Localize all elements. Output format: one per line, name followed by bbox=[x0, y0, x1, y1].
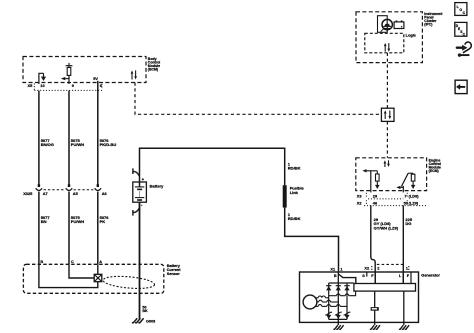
label 5076 PK bbox=[100, 215, 110, 224]
svg-text:RD/BK: RD/BK bbox=[288, 216, 301, 221]
svg-text:C: C bbox=[71, 260, 74, 264]
wire bridge to ground bbox=[337, 319, 339, 325]
resistor R-BCM bbox=[67, 68, 71, 76]
wire 5075 PU/WH (BCM pin9 to X325) bbox=[68, 91, 70, 185]
svg-text:BN: BN bbox=[41, 219, 47, 224]
svg-text:X2: X2 bbox=[357, 201, 363, 206]
signal arrow left ECM pin29 bbox=[362, 169, 370, 172]
label Fusible Link bbox=[290, 186, 305, 195]
diode bridge bottom bus bbox=[329, 318, 347, 320]
connector X325 dashed links bbox=[44, 189, 94, 191]
icon jump arrow bbox=[457, 42, 472, 57]
wire sensor pin C internal bbox=[69, 264, 94, 278]
svg-text:(LZ9): (LZ9) bbox=[409, 201, 419, 206]
wire F terminal to regulator bbox=[374, 272, 376, 284]
label 29 GY (LD8) GY/WH (LZ9) bbox=[374, 217, 399, 231]
label 50 BK bbox=[142, 306, 148, 314]
wire battery positive to fusible link (top run) bbox=[140, 148, 285, 185]
terminal stub S bbox=[366, 272, 368, 277]
diode bridge leg 2 (B wire center leg) bbox=[337, 272, 339, 319]
signal arrow left ECM pin7 bbox=[396, 186, 403, 189]
svg-text:GY/WH (LZ9): GY/WH (LZ9) bbox=[374, 226, 399, 231]
diode bridge leg 3 bbox=[346, 283, 348, 319]
labels X2 2 1 generator pins bbox=[364, 266, 408, 271]
wire L terminal to regulator bbox=[402, 272, 404, 284]
svg-text:Logic: Logic bbox=[406, 32, 417, 37]
wire 5076 PK/D-BU (BCM pin6 to X325) bbox=[97, 81, 99, 185]
sensor loop dashed ellipse bbox=[103, 275, 155, 291]
avalanche diode D6 bbox=[344, 312, 351, 319]
pin letters B C A bbox=[40, 260, 102, 264]
svg-text:Generator: Generator bbox=[421, 272, 440, 277]
svg-text:B: B bbox=[334, 274, 337, 278]
battery clamp top bbox=[133, 168, 139, 176]
svg-text:A5: A5 bbox=[73, 191, 79, 196]
svg-text:BN/OG: BN/OG bbox=[41, 142, 54, 147]
generator G1 box bbox=[300, 272, 419, 322]
stator phase winding 3 bbox=[315, 305, 347, 307]
battery icon in IPC bbox=[394, 20, 404, 28]
wire F right terminal stub to regulator bbox=[410, 272, 412, 284]
svg-text:PU/WH: PU/WH bbox=[71, 219, 84, 224]
field coil rotor bbox=[371, 307, 379, 311]
serial data wire splice to ECM (dashed) bbox=[386, 121, 388, 157]
ground arrow ECM-2 bbox=[411, 181, 416, 189]
diode D2 bbox=[336, 286, 341, 291]
connector X325 pin A7 symbol bbox=[36, 184, 42, 264]
icon DESC hyperlink box bbox=[455, 22, 467, 36]
wire battery negative cable through sensor to ground bbox=[139, 202, 141, 319]
battery clamp bottom bbox=[133, 208, 139, 216]
connector row X2 dotted bbox=[364, 200, 427, 205]
label 5075 PU/WH bbox=[71, 138, 84, 147]
ground symbol generator bridge bbox=[333, 325, 343, 329]
svg-text:A6: A6 bbox=[102, 191, 108, 196]
svg-text:5V: 5V bbox=[93, 76, 98, 81]
voltage regulator box bbox=[354, 284, 416, 292]
serial data wire IPC to splice (dashed) bbox=[386, 53, 388, 108]
terminal letters B S F L F bbox=[334, 274, 410, 278]
signal arrow left BCM bbox=[61, 77, 69, 80]
pin 2 dotted marker bbox=[371, 266, 373, 271]
svg-text:X1: X1 bbox=[330, 266, 336, 271]
resistor R-ECM-2 bbox=[411, 173, 415, 181]
connector X325 pin A5 symbol bbox=[66, 184, 72, 264]
serial data arrows in ECM bbox=[384, 160, 390, 167]
label Instrument Panel Cluster (IPC) bbox=[424, 12, 443, 27]
wire regulator to field coil and ground bbox=[374, 291, 376, 325]
gauge glyph inside lamp bbox=[383, 24, 391, 29]
svg-text:B: B bbox=[40, 260, 43, 264]
svg-text:A7: A7 bbox=[43, 191, 48, 196]
wire 225 DG ECM to generator L bbox=[402, 205, 404, 283]
stator phase winding 1 bbox=[315, 296, 329, 298]
battery current sensor B1S dashed box bbox=[23, 264, 163, 293]
resistor R-ECM-1 bbox=[376, 171, 380, 181]
svg-text:X5: X5 bbox=[28, 83, 34, 88]
label 1 RD/BK upper bbox=[288, 161, 301, 170]
svg-text:PU/WH: PU/WH bbox=[71, 142, 84, 147]
module K20 Engine Control Module (ECM) dashed box bbox=[356, 158, 427, 191]
icon LOC hyperlink box bbox=[455, 3, 467, 16]
label Battery Current Sensor bbox=[167, 264, 181, 276]
svg-text:RD/BK: RD/BK bbox=[288, 166, 301, 171]
B+ supply symbol in BCM bbox=[66, 63, 73, 68]
icon back arrow box bbox=[455, 80, 467, 93]
wire BCM pin 10 internal bbox=[39, 73, 44, 84]
svg-text:Sensor: Sensor bbox=[167, 272, 180, 276]
transistor switch Q-ECM bbox=[401, 173, 413, 186]
wire ECM pin 29 internal bbox=[371, 171, 378, 193]
fusible link F1 bbox=[283, 185, 287, 207]
connector row X3 dotted bbox=[366, 193, 407, 199]
diode D1 bbox=[326, 286, 331, 291]
svg-text:DG: DG bbox=[405, 221, 411, 226]
label 5077 BN/OG bbox=[41, 138, 54, 147]
svg-text:(LD8): (LD8) bbox=[409, 193, 420, 198]
connector X325 pin A6 symbol bbox=[95, 184, 101, 264]
stator phase winding 2 bbox=[317, 300, 338, 302]
pin labels X5 10 9 6 bbox=[28, 83, 103, 88]
diode bridge leg 1 bbox=[328, 283, 330, 319]
serial data splice box bbox=[381, 108, 394, 121]
wire 5077 BN/OG (BCM pin10 to X325) bbox=[38, 91, 40, 185]
wire sensor pin A internal bbox=[97, 264, 99, 274]
svg-text:X325: X325 bbox=[23, 191, 33, 196]
ground G003 symbol bbox=[132, 318, 144, 322]
svg-text:X2: X2 bbox=[364, 266, 370, 271]
label 5076 PK/D-BU bbox=[100, 138, 117, 147]
wire BCM pin 9 internal bbox=[68, 75, 70, 84]
battery cell plates bbox=[135, 187, 144, 200]
diode D3 bbox=[344, 286, 349, 291]
pin labels X3 29 7 (LD8) bbox=[357, 193, 419, 198]
module P16 Instrument Panel Cluster (IPC) dashed box bbox=[356, 12, 422, 63]
pin labels X2 46 53 (LZ9) bbox=[357, 201, 419, 206]
label 5077 BN bbox=[41, 215, 51, 224]
wire 29 GY ECM to generator F bbox=[371, 205, 375, 283]
battery G-battery box bbox=[133, 177, 147, 203]
diode bridge top bus bbox=[329, 282, 354, 284]
svg-text:G003: G003 bbox=[146, 320, 155, 324]
hall element box with X bbox=[94, 274, 102, 281]
svg-text:PK: PK bbox=[100, 219, 106, 224]
charge indicator lamp circle bbox=[382, 19, 392, 29]
label 225 DG bbox=[405, 217, 412, 226]
phase sense wire to regulator bbox=[329, 291, 356, 296]
svg-text:(ECM): (ECM) bbox=[429, 169, 439, 173]
wire sensor pin B internal bbox=[39, 264, 98, 287]
svg-text:7: 7 bbox=[404, 193, 406, 198]
avalanche diode D5 bbox=[335, 312, 342, 319]
wire ECM pin 7 internal bbox=[402, 186, 404, 193]
avalanche diode D4 bbox=[325, 312, 332, 319]
ground symbol generator regulator bbox=[399, 325, 409, 329]
serial data arrows in BCM bbox=[131, 70, 137, 79]
serial data arrows in logic box bbox=[384, 43, 390, 52]
label 1 RD/BK lower bbox=[288, 212, 301, 221]
svg-text:A: A bbox=[99, 260, 102, 264]
charge indicator telltale rectangle bbox=[378, 16, 388, 33]
svg-text:10: 10 bbox=[40, 83, 44, 88]
svg-text:Battery: Battery bbox=[150, 183, 165, 188]
svg-text:(IPC): (IPC) bbox=[424, 22, 432, 26]
svg-text:X3: X3 bbox=[357, 193, 363, 198]
label Engine Control Module (ECM) bbox=[429, 158, 441, 173]
pin 1 dotted marker bbox=[408, 266, 410, 271]
module K9 Body Control Module (BCM) dashed box bbox=[23, 57, 146, 83]
label Body Control Module (BCM) bbox=[148, 57, 160, 72]
serial data wire BCM to splice (dashed) bbox=[135, 83, 381, 115]
svg-text:(BCM): (BCM) bbox=[148, 67, 158, 71]
ground arrow ECM-1 bbox=[375, 181, 380, 189]
svg-text:Link: Link bbox=[290, 190, 299, 195]
wire fusible link to generator B terminal bbox=[285, 208, 339, 272]
svg-text:PK/D-BU: PK/D-BU bbox=[100, 142, 117, 147]
labels X325 A7 A5 A6 bbox=[23, 191, 107, 196]
connector X5 dotted strip bbox=[34, 83, 102, 90]
logic dashed box bbox=[365, 33, 404, 53]
ground symbol generator field bbox=[370, 325, 380, 329]
telltale ray arrow bbox=[381, 28, 385, 32]
connector X2 generator dashed link bbox=[377, 263, 404, 265]
svg-text:BK: BK bbox=[142, 309, 148, 313]
ground arrow inside BCM bbox=[41, 73, 46, 81]
pin label X1 1 bbox=[330, 266, 343, 271]
wire regulator right to ground bbox=[403, 291, 405, 325]
label 5075 PU/WH lower bbox=[71, 215, 84, 224]
stator circle bbox=[303, 295, 317, 309]
wire B terminal staircase branch to regulator bbox=[338, 274, 355, 284]
